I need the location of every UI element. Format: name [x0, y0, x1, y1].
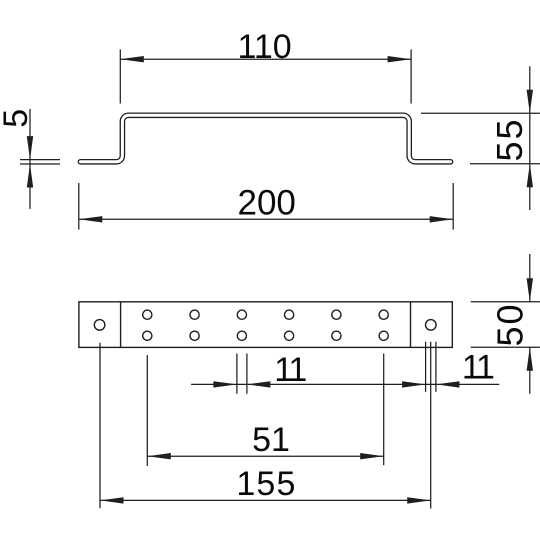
small hole top row col 5	[332, 310, 341, 319]
dim 50 extension line top	[471, 301, 540, 303]
dim 155 line	[100, 499, 431, 501]
svg-text:11: 11	[462, 349, 494, 387]
big hole left	[94, 320, 105, 331]
dim 55 extension line top	[421, 112, 540, 114]
svg-text:51: 51	[252, 421, 290, 459]
dim 11 left arrow A	[213, 381, 237, 387]
dim 155 arrow right	[407, 497, 431, 503]
dim 110 extension line right	[410, 49, 412, 103]
plan view body rectangle	[79, 302, 452, 348]
small hole bottom row col 1	[143, 331, 152, 340]
dim 51 extension line left	[146, 355, 148, 466]
dim 55 extension line bottom	[470, 163, 540, 165]
big hole right	[426, 320, 437, 331]
dim 11 left tick B	[246, 354, 248, 394]
dim 11 right arrow A	[402, 381, 426, 387]
dim 50 arrow bottom	[527, 347, 533, 371]
small hole bottom row col 3	[237, 331, 246, 340]
dim 50 extension line bottom	[471, 346, 540, 348]
svg-text:11: 11	[274, 351, 306, 389]
dim 200 arrow right	[430, 216, 454, 222]
dim 5 extension line upper	[20, 159, 60, 161]
small hole top row col 1	[143, 310, 152, 319]
small hole top row col 3	[237, 310, 246, 319]
small hole bottom row col 5	[332, 331, 341, 340]
small hole bottom row col 2	[190, 331, 199, 340]
dim 51 extension line right	[383, 354, 385, 466]
dim 11 left tick A	[236, 354, 238, 394]
dim 11 right arrow B	[436, 381, 460, 387]
dim 11 shared line	[191, 383, 499, 385]
dim 50 arrow top	[527, 278, 533, 302]
dim 55 arrow top	[527, 90, 533, 114]
svg-text:55: 55	[489, 117, 530, 161]
dim 5 arrow lower	[27, 164, 33, 188]
dim 11 right tick B	[435, 342, 437, 392]
plan view fold line right	[410, 302, 412, 348]
dim 55 vertical line	[529, 66, 531, 210]
svg-text:155: 155	[236, 465, 296, 503]
svg-text:200: 200	[237, 184, 295, 223]
dim 200 extension line left	[78, 183, 80, 230]
small hole top row col 6	[379, 310, 388, 319]
dim 110 line	[120, 58, 411, 60]
svg-text:5: 5	[0, 109, 35, 128]
dim 200 line	[79, 218, 453, 220]
dim 50 vertical line lower	[529, 347, 531, 394]
hat profile inner white (sheet core)	[80, 115, 450, 162]
dim 11 right tick A	[425, 342, 427, 392]
dim 51 line	[147, 455, 383, 457]
dim 110 extension line left	[119, 49, 121, 103]
dim 55 arrow bottom	[527, 164, 533, 188]
small hole bottom row col 6	[379, 331, 388, 340]
dim 155 arrow left	[100, 497, 124, 503]
dim 110 arrow right	[388, 56, 412, 62]
dim 51 arrow left	[147, 453, 171, 459]
dim 110 arrow left	[120, 56, 144, 62]
svg-text:110: 110	[237, 28, 291, 66]
dim 11 left arrow B	[247, 381, 271, 387]
dim 155 extension line left	[99, 343, 101, 509]
dim 50 vertical line upper	[529, 254, 531, 302]
dim 200 arrow left	[79, 216, 103, 222]
small hole top row col 2	[190, 310, 199, 319]
dim 200 extension line right	[452, 183, 454, 230]
dim 5 arrow upper	[27, 136, 33, 160]
plan view fold line left	[120, 302, 122, 348]
small hole bottom row col 4	[285, 331, 294, 340]
hat profile outline (dark sheet)	[80, 115, 450, 162]
svg-text:50: 50	[490, 302, 531, 346]
dim 5 extension line lower	[20, 163, 60, 165]
dim 11 right center line / dim 155 right extension	[430, 342, 432, 509]
dim 5 vertical line	[29, 109, 31, 209]
small hole top row col 4	[285, 310, 294, 319]
dim 51 arrow right	[360, 453, 384, 459]
